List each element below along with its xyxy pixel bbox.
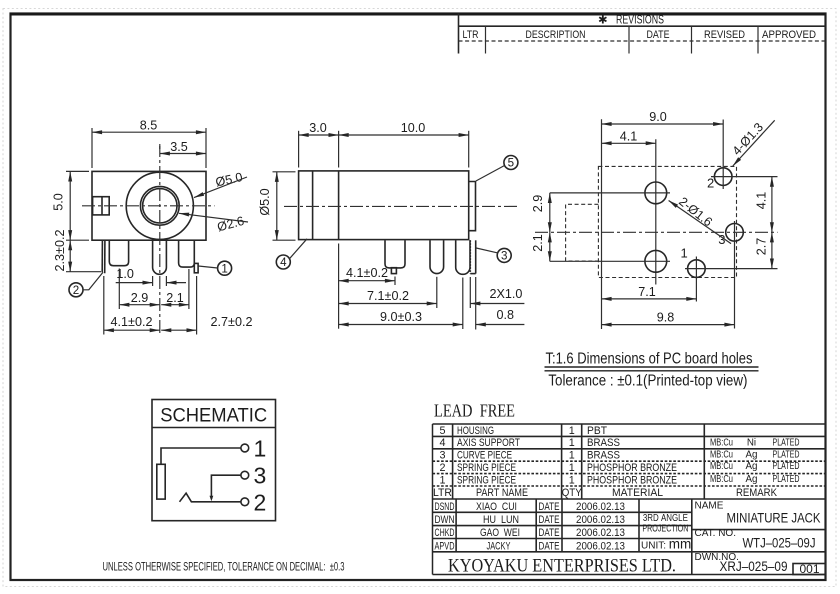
svg-text:3: 3 <box>439 450 445 462</box>
front view: left pin <box>109 241 128 266</box>
svg-text:4: 4 <box>280 256 287 269</box>
schematic: terminal 1 <box>241 436 266 462</box>
svg-text:MB:Cu: MB:Cu <box>710 474 733 485</box>
svg-text:3.5: 3.5 <box>170 140 188 154</box>
svg-text:1: 1 <box>254 436 267 462</box>
svg-text:5: 5 <box>508 157 514 170</box>
svg-text:8.5: 8.5 <box>140 119 158 133</box>
svg-text:JACKY: JACKY <box>487 540 511 552</box>
pcb view: horizontal centerline <box>535 231 778 233</box>
dimension 0.8 <box>476 277 525 330</box>
schematic: terminal 2 <box>241 489 266 515</box>
front view: horizontal centerline <box>82 205 215 207</box>
sheet number box <box>793 562 826 576</box>
front view: jack bore ring <box>140 186 179 225</box>
svg-text:LTR: LTR <box>433 487 452 499</box>
title block grid <box>433 424 826 575</box>
svg-text:1: 1 <box>569 474 575 486</box>
label diameter 5.0 with leader <box>194 170 247 198</box>
svg-text:PHOSPHOR BRONZE: PHOSPHOR BRONZE <box>587 474 677 486</box>
svg-text:3: 3 <box>501 250 507 263</box>
front view: tail pin (part 1) <box>194 263 198 272</box>
svg-text:GAO WEI: GAO WEI <box>480 527 520 539</box>
svg-text:2006.02.13: 2006.02.13 <box>576 514 625 526</box>
name box <box>695 501 822 526</box>
svg-text:7.1±0.2: 7.1±0.2 <box>367 289 409 303</box>
pcb view: dashed barrel notch <box>566 204 599 261</box>
dimension 10.0 <box>339 121 469 168</box>
dwn no box <box>695 552 788 574</box>
svg-text:4.1: 4.1 <box>754 192 768 210</box>
label 2-diameter1.6 with leader <box>669 194 731 243</box>
svg-text:XRJ–025–09: XRJ–025–09 <box>720 559 788 574</box>
svg-text:SCHEMATIC: SCHEMATIC <box>160 405 267 427</box>
pcb view: large hole bottom (1.6) <box>550 250 670 272</box>
svg-text:2.9: 2.9 <box>531 195 545 213</box>
schematic: wire to terminal 1 <box>161 448 241 464</box>
svg-text:3.0: 3.0 <box>309 121 327 135</box>
dimension 2.9 <box>119 269 160 310</box>
side view: pin B <box>430 240 444 273</box>
cat no box <box>695 528 816 551</box>
svg-text:PLATED: PLATED <box>773 449 800 460</box>
svg-text:Ø5.0: Ø5.0 <box>258 188 272 215</box>
svg-text:001: 001 <box>799 562 819 576</box>
svg-text:2006.02.13: 2006.02.13 <box>576 540 625 552</box>
balloon 3 with leader <box>476 248 511 263</box>
svg-text:DWN: DWN <box>435 514 455 526</box>
svg-text:REVISED: REVISED <box>704 29 745 41</box>
revisions column labels <box>463 29 817 41</box>
svg-text:XIAO CUI: XIAO CUI <box>476 501 517 513</box>
schematic: tip contact zigzag wire <box>180 493 241 502</box>
dimension 8.5 <box>92 119 206 168</box>
svg-text:APPROVED: APPROVED <box>762 29 816 41</box>
pcb view: small hole 1 (1.3) <box>685 257 778 302</box>
svg-text:BRASS: BRASS <box>587 450 620 462</box>
svg-text:1: 1 <box>221 262 227 275</box>
svg-text:NAME: NAME <box>695 501 724 512</box>
svg-text:SPRING PIECE: SPRING PIECE <box>457 474 516 486</box>
svg-text:3: 3 <box>254 463 267 489</box>
svg-text:Ag: Ag <box>746 449 758 460</box>
svg-text:1: 1 <box>439 474 445 486</box>
front view: thin pin (part 2) <box>102 241 105 273</box>
schematic box <box>152 400 276 521</box>
svg-text:LTR: LTR <box>463 29 479 41</box>
parts list rows <box>439 425 677 487</box>
dimension 1.0 <box>116 267 186 286</box>
svg-text:HU LUN: HU LUN <box>483 514 519 526</box>
svg-text:1: 1 <box>569 450 575 462</box>
dimension 9.0 +/-0.3 side <box>339 278 463 330</box>
svg-text:2.1: 2.1 <box>531 234 545 252</box>
svg-text:CAT. NO.: CAT. NO. <box>695 528 736 539</box>
svg-text:APVD: APVD <box>435 540 455 552</box>
pcb view: large hole top (1.6) <box>550 182 670 204</box>
svg-text:LEAD FREE: LEAD FREE <box>434 401 515 421</box>
side view: pin C <box>456 240 470 274</box>
svg-text:PHOSPHOR BRONZE: PHOSPHOR BRONZE <box>587 462 677 474</box>
svg-text:1: 1 <box>681 246 688 261</box>
balloon 1 with leader <box>198 261 231 275</box>
svg-text:Ni: Ni <box>747 438 756 449</box>
svg-text:DESCRIPTION: DESCRIPTION <box>526 29 586 41</box>
dimension 2.3 +/-0.2 vertical <box>53 230 101 272</box>
svg-text:QTY: QTY <box>562 487 582 499</box>
dimension 2.9 pcb left <box>531 193 550 232</box>
dimension 4.1 pcb right <box>754 177 772 233</box>
svg-text:2: 2 <box>254 489 267 515</box>
front view: jack body <box>92 171 206 240</box>
dimension 2.1 pcb left <box>531 232 550 261</box>
svg-text:9.0±0.3: 9.0±0.3 <box>380 310 422 324</box>
svg-text:HOUSING: HOUSING <box>457 425 494 437</box>
svg-text:2.3±0.2: 2.3±0.2 <box>53 230 67 272</box>
svg-text:9.0: 9.0 <box>649 110 667 124</box>
note: PC board holes <box>545 351 759 390</box>
svg-text:4: 4 <box>439 437 445 449</box>
svg-text:KYOYAKU ENTERPRISES LTD.: KYOYAKU ENTERPRISES LTD. <box>448 556 676 577</box>
svg-text:2.1: 2.1 <box>166 291 184 305</box>
side view: rear tab (part 5) <box>469 182 476 231</box>
side view: jack body <box>299 171 469 240</box>
schematic: sleeve contact bar <box>157 464 165 499</box>
svg-text:Ag: Ag <box>746 461 758 472</box>
svg-text:DATE: DATE <box>539 540 560 552</box>
svg-text:UNLESS OTHERWISE SPECIFIED, TO: UNLESS OTHERWISE SPECIFIED, TOLERANCE ON… <box>103 560 345 574</box>
dimension 2X1.0 <box>470 277 524 308</box>
svg-text:2: 2 <box>73 284 79 297</box>
dimension 4.1 +/-0.2 lower <box>104 276 160 335</box>
svg-text:2X1.0: 2X1.0 <box>490 287 523 301</box>
svg-text:2: 2 <box>707 176 714 191</box>
svg-text:9.8: 9.8 <box>657 310 675 324</box>
pcb view: vertical centerline through large holes <box>655 139 657 284</box>
svg-text:T:1.6 Dimensions of PC board h: T:1.6 Dimensions of PC board holes <box>546 351 753 368</box>
front view: outer barrel circle <box>126 172 193 239</box>
svg-text:MINIATURE JACK: MINIATURE JACK <box>727 511 822 526</box>
svg-text:10.0: 10.0 <box>401 121 426 135</box>
plating remarks <box>710 438 800 486</box>
schematic: terminal 3 <box>241 463 266 489</box>
dimension 3.0 <box>299 121 339 168</box>
side view: pin A tail <box>391 268 396 274</box>
label 4-diameter1.3 with leader <box>730 120 775 166</box>
svg-text:0.8: 0.8 <box>497 308 515 322</box>
svg-text:REMARK: REMARK <box>736 487 778 499</box>
svg-text:4.1±0.2: 4.1±0.2 <box>346 266 388 280</box>
dimension 9.0 pcb <box>602 110 724 329</box>
front view: center pin <box>153 241 167 274</box>
svg-text:2006.02.13: 2006.02.13 <box>576 501 625 513</box>
svg-text:PROJECTION: PROJECTION <box>642 524 688 535</box>
svg-text:5: 5 <box>439 425 445 437</box>
svg-text:1: 1 <box>569 437 575 449</box>
front view: vertical centerline <box>159 144 161 334</box>
svg-text:MB:Cu: MB:Cu <box>710 449 733 460</box>
svg-text:1: 1 <box>569 425 575 437</box>
svg-text:SPRING PIECE: SPRING PIECE <box>457 462 516 474</box>
balloon 4 with leader <box>276 239 307 269</box>
dimension 7.1 pcb <box>602 285 697 299</box>
label diameter 2.6 with leader <box>179 213 248 234</box>
balloon 5 with leader <box>476 156 518 182</box>
svg-text:DATE: DATE <box>539 514 560 526</box>
svg-text:WTJ–025–09J: WTJ–025–09J <box>743 536 816 551</box>
svg-text:2.7: 2.7 <box>754 238 768 256</box>
svg-text:DATE: DATE <box>539 527 560 539</box>
svg-text:4.1±0.2: 4.1±0.2 <box>111 315 153 329</box>
dimension 4.1 +/-0.2 side <box>339 244 395 329</box>
svg-text:PLATED: PLATED <box>773 461 800 472</box>
side view: pin A <box>385 240 405 268</box>
svg-text:3RD ANGLE: 3RD ANGLE <box>643 513 688 524</box>
pcb view: small hole 2 (1.3) <box>711 120 778 190</box>
balloon 2 with leader <box>69 272 103 297</box>
svg-text:MATERIAL: MATERIAL <box>612 487 663 499</box>
dimension 2.7 pcb right <box>754 232 772 268</box>
svg-text:REVISIONS: REVISIONS <box>616 15 664 27</box>
svg-text:PLATED: PLATED <box>773 438 800 449</box>
svg-text:4.1: 4.1 <box>620 129 638 143</box>
dimension 2.1 <box>161 269 189 309</box>
dimension diameter 5.0 vertical <box>258 172 296 240</box>
signature rows <box>435 501 626 553</box>
svg-text:MB:Cu: MB:Cu <box>710 461 733 472</box>
svg-text:✱: ✱ <box>598 15 608 27</box>
dimension 5.0 vertical <box>52 171 90 240</box>
svg-text:2.7±0.2: 2.7±0.2 <box>211 315 253 329</box>
dimension 3.5 <box>160 140 206 154</box>
svg-text:2.9: 2.9 <box>131 291 149 305</box>
svg-text:CURVE PIECE: CURVE PIECE <box>457 450 512 462</box>
svg-text:2: 2 <box>439 462 445 474</box>
svg-text:DATE: DATE <box>647 29 670 41</box>
front view: mounting tab detail <box>93 197 110 215</box>
pcb view: dashed component outline <box>598 166 736 277</box>
dimension 7.1 +/-0.2 side <box>339 277 437 308</box>
svg-text:AXIS SUPPORT: AXIS SUPPORT <box>457 437 520 449</box>
pcb view: small hole 3 (1.3) <box>726 221 744 329</box>
svg-text:PART NAME: PART NAME <box>476 487 528 499</box>
side view: horizontal centerline <box>284 205 519 207</box>
svg-text:BRASS: BRASS <box>587 437 620 449</box>
svg-text:DATE: DATE <box>539 501 560 513</box>
dimension 2.7 +/-0.2 lower <box>161 276 252 335</box>
svg-text:7.1: 7.1 <box>638 285 656 299</box>
parts list header <box>433 487 778 499</box>
svg-text:2006.02.13: 2006.02.13 <box>576 527 625 539</box>
schematic: wire to terminal 3 with switch drop <box>210 475 241 501</box>
front view: right pin <box>179 241 195 267</box>
svg-text:Tolerance : ±0.1(Printed-top v: Tolerance : ±0.1(Printed-top view) <box>548 373 747 390</box>
svg-text:PLATED: PLATED <box>773 474 800 485</box>
svg-text:Ag: Ag <box>746 474 758 485</box>
svg-text:1: 1 <box>569 462 575 474</box>
side view: board stop strip (part 3) <box>470 240 475 273</box>
dimension 4.1 pcb top <box>602 129 656 143</box>
svg-text:DSND: DSND <box>435 501 455 513</box>
svg-text:5.0: 5.0 <box>52 193 66 211</box>
svg-text:PBT: PBT <box>587 425 607 437</box>
revisions table <box>459 14 826 54</box>
projection box <box>642 513 688 535</box>
svg-text:CHKD: CHKD <box>435 527 455 539</box>
svg-text:MB:Cu: MB:Cu <box>710 438 733 449</box>
dimension 9.8 pcb <box>602 310 735 324</box>
